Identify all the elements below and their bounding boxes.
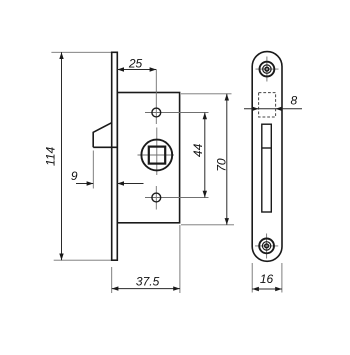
- extension line plate bottom right: [281, 263, 283, 293]
- latch bottom line: [93, 146, 117, 148]
- bottom screw hole horizontal centerline: [145, 197, 209, 199]
- top screw vertical centerline: [266, 57, 268, 82]
- svg-text:37.5: 37.5: [136, 274, 160, 288]
- latch bolt: [93, 123, 112, 148]
- extension line faceplate bottom left: [111, 267, 113, 293]
- dimension 44 top arrow: [203, 113, 207, 120]
- hidden case outline (dashed): [259, 93, 276, 117]
- top screw outer circle: [260, 62, 275, 77]
- dimension 8 left arrow: [252, 107, 258, 111]
- svg-text:16: 16: [260, 272, 274, 286]
- latch slot divider: [262, 147, 272, 149]
- spindle square hole: [149, 147, 165, 164]
- dimension 8 line: [244, 108, 302, 110]
- dimension 44 line: [204, 113, 206, 198]
- dimension 9 right segment: [117, 183, 143, 185]
- svg-text:9: 9: [71, 169, 78, 183]
- dimension 9 left arrow: [87, 181, 94, 185]
- top screw hole horizontal centerline: [145, 112, 209, 114]
- top screw center: [265, 67, 269, 71]
- spindle hub horizontal centerline: [138, 154, 175, 156]
- top screw horizontal centerline: [256, 68, 279, 70]
- dimension 114 bottom arrow: [59, 254, 63, 261]
- dimension 9 left segment: [76, 183, 93, 185]
- svg-text:70: 70: [214, 158, 228, 172]
- striker plate (front view): [252, 52, 282, 262]
- faceplate (edge view): [112, 52, 118, 260]
- dimension 25 line: [117, 69, 156, 71]
- bottom screw hole vertical centerline: [155, 186, 157, 210]
- bottom screw inner circle: [262, 242, 270, 250]
- dimension 8 right arrow: [276, 107, 282, 111]
- spindle hub circle: [141, 140, 172, 171]
- dimension 70 line: [226, 94, 228, 225]
- dimension 37.5 right arrow: [173, 286, 180, 290]
- bottom screw vertical centerline: [266, 234, 268, 259]
- dimension 44 bottom arrow: [203, 191, 207, 198]
- bottom screw outer circle: [259, 239, 274, 254]
- extension line body bottom right vertical: [179, 225, 181, 293]
- extension line plate bottom left: [251, 263, 253, 293]
- svg-text:25: 25: [128, 57, 143, 71]
- dimension 25 left arrow: [117, 67, 124, 71]
- dimension 25 right arrow: [150, 67, 157, 71]
- extension line at faceplate bottom: [54, 259, 114, 261]
- extension line at faceplate top: [51, 51, 114, 53]
- dimension 37.5 left arrow: [112, 286, 119, 290]
- bottom screw hole: [152, 193, 161, 202]
- top screw hole vertical centerline: [155, 70, 157, 125]
- dimension 114 line: [61, 52, 63, 260]
- dimension 70 bottom arrow: [225, 218, 229, 225]
- dimension 114 top arrow: [59, 52, 63, 59]
- top screw inner circle: [263, 65, 271, 73]
- latch slot: [262, 124, 272, 212]
- bottom screw horizontal centerline: [255, 245, 278, 247]
- extension line latch front: [92, 151, 94, 189]
- spindle hub vertical centerline: [156, 128, 158, 176]
- dimension 16 left arrow: [252, 287, 259, 291]
- lock body (case): [117, 93, 179, 223]
- extension line body top right: [181, 93, 232, 95]
- dimension 9 right arrow: [117, 181, 124, 185]
- extension line body bottom right: [181, 224, 234, 226]
- top screw hole: [152, 108, 161, 117]
- dimension 37.5 line: [112, 288, 180, 290]
- svg-text:44: 44: [191, 143, 205, 157]
- dimension 70 top arrow: [225, 94, 229, 101]
- svg-text:114: 114: [44, 147, 58, 166]
- dimension 16 line: [252, 288, 282, 290]
- dimension 16 right arrow: [275, 287, 282, 291]
- svg-text:8: 8: [291, 94, 298, 108]
- bottom screw center: [265, 244, 269, 248]
